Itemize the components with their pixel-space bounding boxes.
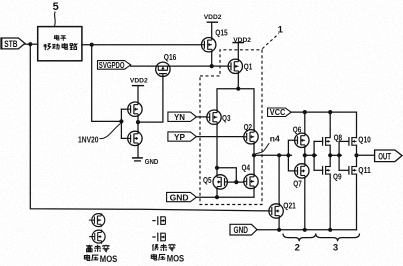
junction STB input node — [28, 42, 32, 46]
junction stage2 inverter output — [328, 153, 332, 157]
transistor Q4 — [244, 174, 258, 190]
junction Q6 Q7 gate rail on n4 line — [286, 153, 290, 157]
legend text 电压MOS left — [84, 254, 117, 264]
power VDD2 T-bar above INV20 — [133, 85, 144, 87]
transistor Q7 — [295, 163, 309, 179]
wire Q8 gate lead — [314, 140, 323, 142]
input tag YN — [168, 112, 197, 122]
wire Q7 source down to GND rail — [304, 178, 306, 230]
node n3 Q3 source Q5 drain — [215, 166, 219, 170]
junction INV20 output — [136, 120, 140, 124]
wire STB node down left side and along bottom to Q21 gate — [30, 44, 269, 211]
node n4 Q2 source Q4 drain — [252, 153, 256, 157]
junction VCC rail at Q6 — [303, 110, 307, 114]
transistor INV20 NMOS — [128, 131, 142, 147]
wire Q9 source down to GND rail — [329, 174, 331, 230]
transistor Q11 — [349, 166, 357, 175]
wire YN tag to Q3 gate — [196, 116, 207, 118]
wire Q11 drain up to out segment — [356, 155, 358, 166]
transistor Q10 — [349, 137, 357, 146]
transistor Q6 — [295, 132, 309, 148]
junction Q8 Q9 gate rail — [312, 153, 316, 157]
wire Q9 gate lead — [314, 169, 323, 171]
input tag GND bottom — [230, 224, 257, 235]
junction Q5 source on GND line — [215, 195, 219, 199]
wire VDD2 to Q15 source — [211, 22, 213, 38]
transistor INV20 PMOS — [128, 101, 142, 117]
legend high-voltage MOS symbol bottom — [89, 229, 105, 243]
input tag GND left — [167, 192, 197, 202]
wire Q21 source down to GND rail — [278, 219, 280, 230]
transistor Q5 (mirrored, gate on right) — [213, 174, 227, 190]
junction GND rail at Q7 — [303, 228, 307, 232]
wire Q11 gate lead — [339, 169, 349, 171]
power VDD2 T-bar above Q15 — [207, 21, 217, 23]
wire VCC rail — [291, 112, 357, 138]
wire INV20 NMOS source to ground — [137, 145, 139, 158]
junction level-shifter output branch — [90, 43, 94, 47]
junction Q1 drain node — [236, 87, 240, 91]
wire SVGPDO line through Q16 to Q1 gate — [131, 65, 229, 67]
wire GND rail bottom right — [257, 229, 357, 231]
transistor Q21 — [269, 203, 283, 219]
junction INV20 gate input — [119, 119, 123, 123]
ground symbol under INV20 — [133, 157, 142, 159]
wire INV20 gate leads — [121, 108, 128, 110]
wire node to Q3 and Q2 drains (pi shape) — [217, 89, 254, 131]
transistor Q1 — [228, 58, 242, 74]
wire VDD2 bar to INV20 PMOS source — [137, 86, 139, 103]
wire Q10 gate lead — [339, 140, 349, 142]
wire Q21 drain up to n4 line — [278, 155, 280, 203]
leader squiggle from n4 to node — [255, 143, 269, 154]
transistor Q16 (gate at bottom) — [155, 62, 171, 76]
wire Q11 source down to GND rail corner — [356, 174, 358, 230]
junction stage1 inverter output — [303, 153, 307, 157]
legend low-voltage MOS symbol bottom — [152, 233, 165, 242]
wire Q15 drain to SVGPDO line — [211, 52, 213, 67]
wire Q10 Q11 gate rail — [338, 141, 340, 170]
wire INV20 PMOS drain to NMOS drain — [137, 116, 139, 132]
leader dashed curve to label 1 — [262, 34, 279, 49]
wire Q5 drain up to node n3 — [216, 168, 218, 175]
box text line2: 移动电路 — [44, 43, 77, 50]
transistor Q15 — [202, 37, 216, 53]
wire level-shifter output to Q15 gate — [82, 44, 202, 46]
wire Q1 drain down to node — [237, 73, 239, 89]
box text line1: 电平 — [55, 35, 67, 41]
transistor Q2 — [244, 129, 258, 145]
legend text 低击穿 — [152, 244, 175, 251]
power VDD2 T-bar above Q1 — [233, 42, 243, 44]
junction Q10 Q11 gate rail — [337, 153, 341, 157]
wire branch down to INV20 input — [92, 45, 122, 122]
dashed box 1 outline — [200, 50, 262, 205]
junction stage3 output to OUT — [354, 153, 358, 157]
wire Q2 source down to node n4 — [253, 143, 255, 155]
wire Q6 Q7 gate rail — [288, 140, 294, 171]
wire GND tag line to Q4 source — [196, 188, 254, 197]
wire Q10 drain down to out segment — [356, 145, 358, 155]
wire Q7 drain up to out node — [304, 155, 306, 164]
input tag YP — [168, 132, 197, 142]
wire output segment to OUT tag — [357, 154, 375, 156]
wire stage1 output segment — [305, 154, 317, 156]
wire Q8 Q9 gate rail — [313, 141, 315, 170]
junction VCC rail at Q8 — [328, 110, 332, 114]
legend text 高击穿 — [86, 245, 109, 252]
leader squiggle from 5 to box — [53, 12, 56, 27]
legend high-voltage MOS symbol top — [89, 213, 105, 227]
wire VDD2 to Q1 source — [237, 43, 239, 60]
wire Q8 drain down to stage2 node — [329, 145, 331, 155]
wire Q5 source down to GND line — [216, 189, 218, 198]
junction GND rail at Q21 — [277, 228, 281, 232]
wire YP tag to Q2 gate — [196, 136, 244, 138]
junction Q15 drain on SVGPDO line — [210, 64, 214, 68]
leader squiggle from 1NV20 to gate — [100, 124, 121, 139]
junction GND rail at Q9 — [328, 228, 332, 232]
transistor Q9 — [323, 166, 331, 175]
wire Q8 source up to VCC — [329, 112, 331, 138]
transistor Q3 — [207, 109, 221, 125]
wire node n3 cross-couple to Q4 gate — [217, 168, 236, 182]
brace 2 — [283, 234, 316, 242]
wire STB tag to level-shifter box — [25, 43, 38, 45]
output tag OUT — [375, 150, 402, 162]
input tag VCC — [268, 107, 292, 117]
wire node n4 to Q6/Q7 gate rail — [254, 154, 292, 156]
wire INV20 gate rail — [120, 109, 122, 138]
wire stage2 output segment — [330, 154, 341, 156]
input tag STB — [1, 38, 25, 50]
brace 3 — [316, 234, 360, 242]
wire Q5 gate to Q4 gate — [227, 181, 244, 183]
transistor Q8 — [323, 137, 331, 146]
wire Q6 drain to out node — [304, 147, 306, 155]
wire Q3 source down to node n3 — [216, 124, 218, 167]
wire Q6 source up to VCC — [304, 112, 306, 133]
legend text 电压MOS right — [151, 254, 184, 264]
input tag SVGPDO — [98, 61, 131, 70]
legend low-voltage MOS symbol top — [152, 216, 165, 225]
junction Q4 gate cross-couple — [234, 180, 238, 184]
level shifter box 5 — [38, 27, 82, 61]
wire Q9 drain up to stage2 node — [329, 155, 331, 166]
junction Q21 drain on n4 line — [277, 153, 281, 157]
wire INV20 output to Q16 gate — [138, 75, 163, 122]
wire Q4 drain up to node n4 — [253, 155, 255, 174]
